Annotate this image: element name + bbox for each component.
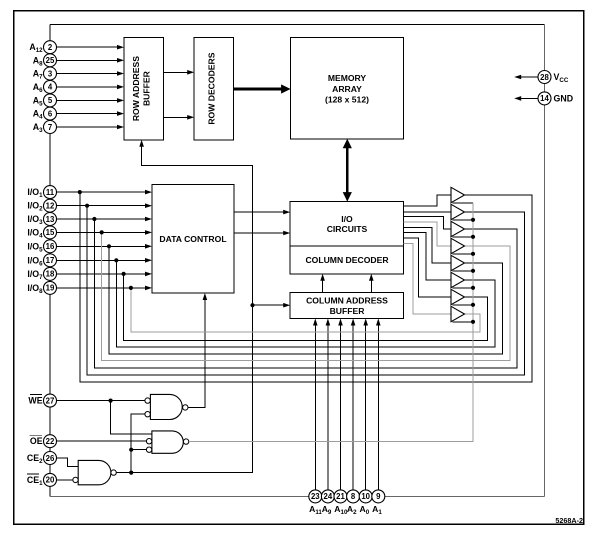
- svg-text:16: 16: [46, 242, 55, 251]
- junction buffer B3 enable: [471, 235, 475, 239]
- label I/O5: [27, 241, 43, 253]
- pin I/O5 (16): [44, 240, 57, 253]
- wire output enable bus from G2: [189, 203, 473, 442]
- buffer B7 (output driver): [451, 289, 473, 305]
- pin A3 (7): [44, 121, 57, 134]
- buffer B3 (output driver): [451, 221, 473, 237]
- wire A2 to column address buffer: [351, 319, 356, 491]
- block I/O CIRCUITS + COLUMN DECODER: [290, 202, 403, 274]
- svg-text:27: 27: [46, 396, 55, 405]
- svg-text:19: 19: [46, 284, 55, 293]
- wire buffer B3 output to I/O3 feedback: [94, 219, 517, 368]
- junction buffer B2 enable: [471, 218, 475, 222]
- wire I/O circuits to buffer B5: [404, 227, 452, 263]
- wire buffer B2 output to I/O2 feedback: [87, 206, 524, 375]
- wire buffer B1 output to I/O1 feedback: [80, 192, 532, 382]
- junction I/O5 node: [107, 244, 111, 248]
- pin A6 (4): [44, 80, 57, 93]
- wire data control to I/O circuits (lower): [234, 231, 290, 236]
- block DATA CONTROL: [152, 185, 234, 294]
- svg-text:22: 22: [46, 437, 55, 446]
- label A9: [322, 504, 332, 516]
- wire A1 to column address buffer: [376, 319, 381, 491]
- pin I/O4 (15): [44, 226, 57, 239]
- label A10: [334, 504, 348, 516]
- wire A9 to column address buffer: [326, 319, 331, 491]
- junction buffer B6 enable: [471, 286, 475, 290]
- wire CE branch to column address buffer: [253, 303, 291, 308]
- pin OE (22): [44, 435, 57, 448]
- label I/O2: [27, 201, 43, 213]
- label A3: [33, 122, 43, 134]
- label 5268A-2: [555, 516, 583, 525]
- label I/O3: [27, 214, 43, 226]
- svg-text:3: 3: [48, 69, 53, 78]
- label A11: [309, 504, 322, 516]
- junction buffer B7 enable: [471, 303, 475, 307]
- junction I/O6 node: [114, 258, 118, 262]
- wire I/O3 to data control: [57, 217, 153, 222]
- junction buffer B4 enable: [471, 252, 475, 256]
- label I/O1: [27, 187, 43, 199]
- wire CE1 to gate G3: [57, 479, 73, 481]
- svg-text:8: 8: [351, 492, 356, 501]
- label I/O4: [27, 227, 43, 239]
- pin A2 (8): [347, 490, 360, 503]
- wire data control to I/O circuits (upper): [234, 210, 290, 215]
- wire GND arrow: [514, 96, 538, 101]
- svg-text:5268A-2: 5268A-2: [555, 516, 583, 525]
- svg-text:20: 20: [46, 476, 55, 485]
- pin I/O8 (19): [44, 281, 57, 294]
- wire row buffer to row decoders (upper): [163, 70, 194, 75]
- svg-text:5: 5: [48, 96, 53, 105]
- junction I/O2 node: [85, 204, 89, 208]
- junction buffer B5 enable: [471, 269, 475, 273]
- wire row buffer to row decoders (lower): [163, 115, 194, 120]
- svg-text:ARRAY: ARRAY: [332, 84, 362, 94]
- svg-text:18: 18: [46, 270, 55, 279]
- wire A10 to column address buffer: [338, 319, 343, 491]
- label A0: [360, 504, 370, 516]
- junction CE-CAB tap: [250, 303, 254, 307]
- wire OE to gate G2: [57, 440, 147, 442]
- wire A6 to row address buffer: [57, 85, 125, 90]
- block MEMORY ARRAY: [291, 37, 404, 138]
- buffer B6 (output driver): [451, 272, 473, 288]
- pin A9 (24): [321, 490, 334, 503]
- svg-text:12: 12: [46, 202, 55, 211]
- pin GND (14): [538, 92, 551, 105]
- wire buffer B7 output to I/O7 feedback: [124, 274, 488, 340]
- pin A10 (21): [334, 490, 347, 503]
- svg-text:DATA CONTROL: DATA CONTROL: [159, 234, 226, 244]
- junction I/O4 node: [100, 230, 104, 234]
- label CE1: [27, 474, 43, 487]
- wire A0 to column address buffer: [363, 319, 368, 491]
- pin A12 (2): [44, 41, 57, 54]
- junction I/O1 node: [78, 190, 82, 194]
- label OE: [30, 435, 43, 446]
- block COLUMN ADDRESS BUFFER: [290, 293, 403, 319]
- label A7: [33, 69, 43, 81]
- wire buffer B8 output to I/O8 feedback: [131, 288, 480, 332]
- wire I/O circuits to buffer B4: [404, 222, 452, 246]
- svg-text:28: 28: [540, 73, 549, 82]
- svg-text:23: 23: [311, 492, 320, 501]
- svg-text:COLUMN ADDRESS: COLUMN ADDRESS: [306, 295, 388, 305]
- pin I/O2 (12): [44, 199, 57, 212]
- block ROW DECODERS: [194, 37, 233, 139]
- svg-text:13: 13: [46, 215, 55, 224]
- svg-text:24: 24: [324, 492, 333, 501]
- label CE2: [27, 453, 43, 465]
- junction I/O7 node: [122, 272, 126, 276]
- svg-text:MEMORY: MEMORY: [328, 73, 367, 83]
- wire I/O circuits to buffer B6: [404, 233, 452, 280]
- buffer B5 (output driver): [451, 255, 473, 270]
- wire column address buffer to column decoder (left): [320, 274, 325, 293]
- junction CE-G2 tap: [129, 448, 133, 452]
- label A12: [29, 42, 43, 54]
- wire I/O circuits to buffer B2: [404, 211, 452, 213]
- gate G1 (write control NAND): [145, 394, 188, 419]
- wire I/O2 to data control: [57, 203, 153, 208]
- buffer B4 (output driver): [451, 238, 473, 254]
- pin A5 (5): [44, 94, 57, 107]
- label GND: [554, 94, 574, 104]
- wire I/O circuits to buffer B7: [404, 238, 452, 297]
- label A5: [33, 95, 43, 107]
- bus memory array to I/O circuits (bidirectional): [343, 139, 352, 202]
- svg-text:BUFFER: BUFFER: [330, 306, 366, 316]
- block ROW ADDRESS BUFFER: [124, 37, 163, 139]
- svg-text:6: 6: [48, 109, 53, 118]
- pin A11 (23): [309, 490, 322, 503]
- label A1: [372, 504, 382, 516]
- svg-text:21: 21: [336, 492, 345, 501]
- wire I/O7 to data control: [57, 272, 153, 277]
- pin A8 (25): [44, 54, 57, 67]
- svg-text:7: 7: [48, 123, 52, 132]
- pin A0 (10): [359, 490, 372, 503]
- wire I/O circuits to buffer B1: [404, 195, 452, 206]
- wire A11 to column address buffer: [313, 319, 318, 491]
- label WE: [28, 395, 42, 406]
- wire A4 to row address buffer: [57, 111, 125, 116]
- junction CE-G1G2 tap: [129, 471, 133, 475]
- label A6: [33, 82, 43, 94]
- label A4: [33, 109, 43, 121]
- wire Vcc arrow: [514, 75, 538, 80]
- label I/O7: [27, 269, 43, 281]
- svg-text:OE: OE: [30, 436, 43, 446]
- svg-text:CIRCUITS: CIRCUITS: [327, 224, 368, 234]
- buffer B1 (output driver): [451, 187, 473, 203]
- svg-text:17: 17: [46, 256, 55, 265]
- wire chip-outline ring: [50, 25, 545, 497]
- svg-text:2: 2: [48, 43, 53, 52]
- pin I/O1 (11): [44, 186, 57, 199]
- wire buffer B6 output to I/O6 feedback: [116, 260, 495, 347]
- wire CE branch to G1/G2: [131, 414, 146, 472]
- wire I/O6 to data control: [57, 258, 153, 263]
- junction WE node: [109, 399, 113, 403]
- svg-text:ROW DECODERS: ROW DECODERS: [207, 52, 217, 124]
- wire I/O5 to data control: [57, 244, 153, 249]
- svg-text:26: 26: [46, 454, 55, 463]
- wire buffer B5 output to I/O5 feedback: [109, 246, 502, 354]
- svg-text:25: 25: [46, 56, 55, 65]
- gate G3 (chip select NAND): [73, 460, 117, 484]
- svg-text:COLUMN DECODER: COLUMN DECODER: [305, 255, 389, 265]
- pin I/O3 (13): [44, 213, 57, 226]
- svg-text:I/O: I/O: [341, 214, 353, 224]
- svg-text:14: 14: [540, 94, 549, 103]
- junction I/O8 node: [129, 286, 133, 290]
- wire WE to gate G1: [57, 400, 145, 402]
- label A8: [33, 55, 43, 67]
- svg-text:10: 10: [361, 492, 370, 501]
- pin I/O6 (17): [44, 254, 57, 267]
- label I/O8: [27, 283, 43, 295]
- wire buffer B4 output to I/O4 feedback: [102, 232, 510, 360]
- buffer B2 (output driver): [451, 204, 473, 220]
- svg-text:11: 11: [46, 188, 55, 197]
- pin A1 (9): [372, 490, 385, 503]
- wire A12 to row address buffer: [57, 45, 125, 50]
- wire A5 to row address buffer: [57, 98, 125, 103]
- svg-text:ROW ADDRESS: ROW ADDRESS: [131, 56, 141, 121]
- pin WE (27): [44, 394, 57, 407]
- pin A7 (3): [44, 67, 57, 80]
- pin CE1 (20): [44, 473, 57, 486]
- wire WE branch to gate G2: [111, 401, 152, 435]
- wire I/O circuits to buffer B3: [404, 217, 452, 230]
- svg-text:WE: WE: [28, 396, 42, 406]
- pin A4 (6): [44, 107, 57, 120]
- pin Vcc (28): [538, 71, 551, 84]
- wire I/O8 to data control: [57, 286, 153, 291]
- junction I/O3 node: [92, 217, 96, 221]
- pin I/O7 (18): [44, 267, 57, 280]
- bus row decoders to memory array: [234, 84, 291, 93]
- svg-text:9: 9: [376, 492, 381, 501]
- wire CE2 to gate G3: [57, 458, 79, 466]
- label I/O6: [27, 255, 43, 267]
- wire A3 to row address buffer: [57, 125, 125, 130]
- pin CE2 (26): [44, 452, 57, 465]
- svg-text:BUFFER: BUFFER: [142, 70, 152, 106]
- svg-text:4: 4: [48, 83, 53, 92]
- gate G2 (output enable NAND): [146, 431, 188, 453]
- label A2: [347, 504, 357, 516]
- buffer B8 (output driver): [451, 306, 473, 322]
- wire column address buffer to column decoder (right): [369, 274, 374, 293]
- wire CE net from G3: [116, 140, 252, 473]
- wire A7 to row address buffer: [57, 71, 125, 76]
- wire G1 output to data control: [188, 293, 207, 407]
- svg-text:GND: GND: [554, 94, 574, 104]
- svg-text:(128 x 512): (128 x 512): [325, 95, 369, 105]
- label Vcc: [554, 72, 569, 84]
- wire I/O1 to data control: [57, 190, 153, 195]
- svg-text:15: 15: [46, 228, 55, 237]
- wire A8 to row address buffer: [57, 58, 125, 63]
- wire I/O circuits to buffer B8: [404, 243, 452, 314]
- wire I/O4 to data control: [57, 230, 153, 235]
- junction buffer B8 enable: [471, 320, 475, 324]
